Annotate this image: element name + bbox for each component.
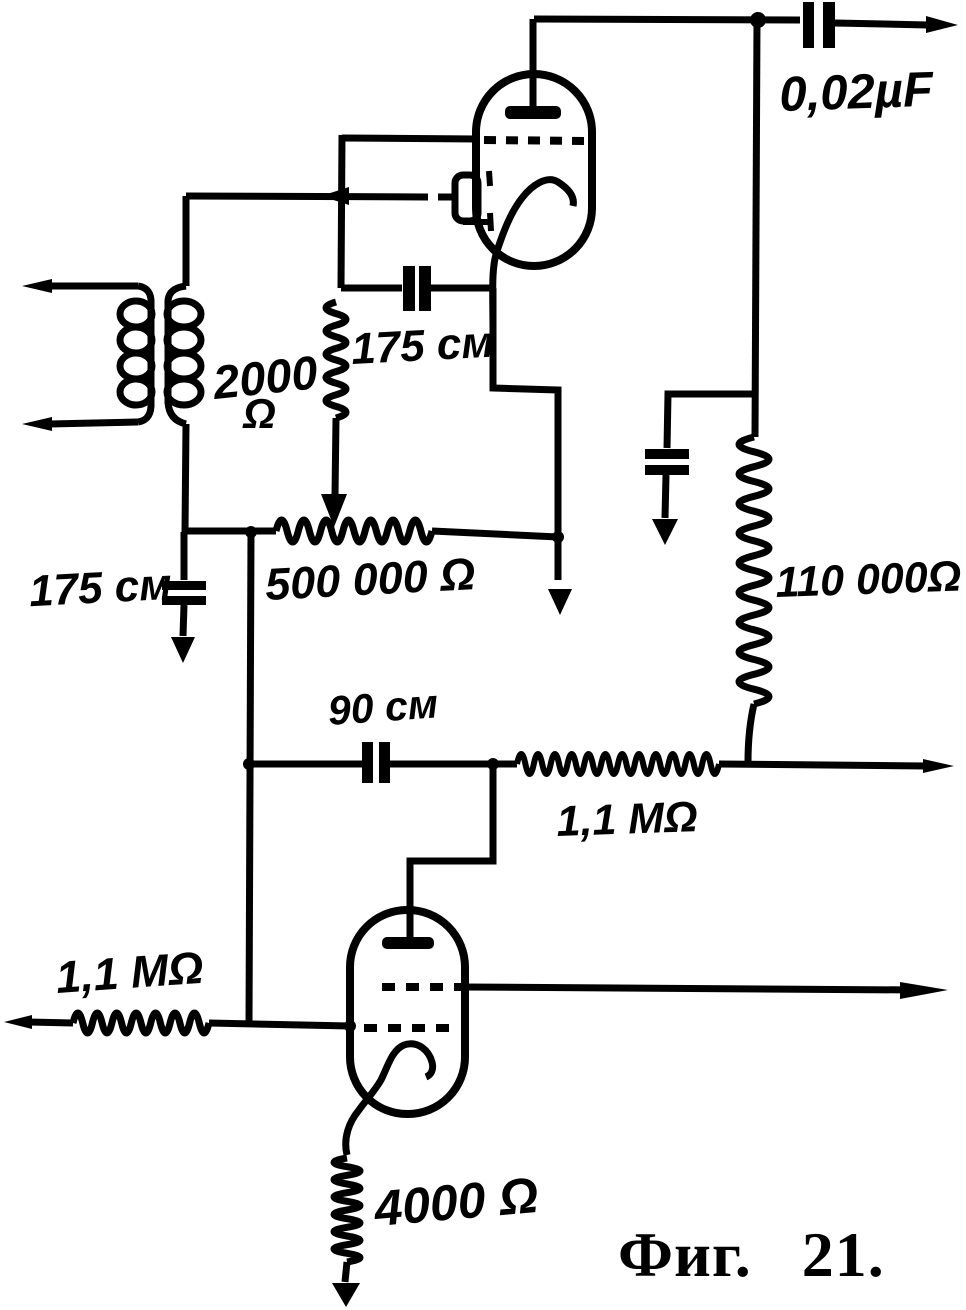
node junction top rail to plate resistor [750,12,766,28]
tube V1 grid dashed line [484,140,589,141]
transformer primary top lead with arrow [22,279,151,304]
resistor 1,1 Mohm coupling zigzag [517,754,719,774]
resistor 1,1 Mohm grid leak zigzag [73,1013,209,1033]
wire 90cm cap to junction [390,761,517,768]
label 2000 ohm [210,345,321,437]
wire branch to plate bypass cap [667,394,756,448]
wire grid line corner down [341,135,342,288]
arrowhead on grid-cap lead [321,187,349,205]
node cathode to potentiometer [552,531,564,543]
wire plate feed tube V1 [530,19,537,110]
svg-text:1,1 МΩ: 1,1 МΩ [556,793,699,846]
potentiometer wiper arrow [321,494,347,527]
tube V2 envelope [350,910,465,1114]
ground arrow below cathode resistor junction [548,589,572,615]
transformer primary winding [120,301,152,405]
tube V1 inner electrode ticks [463,171,491,231]
label 0,02uF [778,63,934,122]
tube V1 envelope [476,74,592,266]
ground arrow below 4000 ohm [332,1283,360,1307]
label 500000 ohm [264,548,477,610]
wire junction to bypass cap 175cm [181,532,188,580]
wire B+ vertical drop to 110k [755,20,757,437]
svg-text:1,1 МΩ: 1,1 МΩ [54,942,205,1003]
tube V2 anode plate bar [382,937,434,949]
label figure caption [618,1219,885,1290]
tube V1 side grid-cap box [455,175,478,221]
transformer secondary winding [167,301,201,405]
resistor 110000 ohm zigzag [739,437,769,762]
wire secondary top to grid-cap lead [168,196,186,304]
capacitor C-out 0,02uF plates [803,2,835,48]
wire coupling down to V2 plate [410,764,493,940]
node potentiometer left to lower bus [245,526,257,538]
wire input arrow bottom left [4,1015,73,1029]
ground arrow below 175cm cap [171,605,195,663]
label 1,1 Mohm grid leak [54,942,205,1003]
svg-text:90 см: 90 см [326,680,439,734]
capacitor 90cm plates [362,742,390,783]
wire V2 output to the right with arrow [464,982,948,999]
svg-text:175 см: 175 см [350,318,495,374]
wire to grid capacitor [341,285,402,292]
wire grid leak to V2 grid [209,1023,350,1026]
capacitor plate bypass plates [645,449,689,475]
tube V2 grid dashed line lower [364,1024,452,1032]
label 110000 ohm [775,553,962,607]
label 175cm top [350,318,495,374]
node bus to 90cm cap [243,758,255,770]
tube V2 grid dashed line upper [382,983,462,991]
potentiometer 500000 ohm zigzag [276,520,558,542]
label 175cm bottom [28,560,173,616]
ground arrow below bypass cap [652,475,678,545]
svg-text:110 000Ω: 110 000Ω [775,553,962,607]
wire secondary bottom down [168,402,186,532]
wire output top right with arrow [835,16,958,33]
tube V1 cathode lead down and over [493,288,558,580]
svg-text:175 см: 175 см [28,560,173,616]
wire B+ top rail [534,19,800,20]
wire grid of V1 to tuned circuit [342,138,478,139]
label 90cm [326,680,439,734]
svg-text:Фиг. 21.: Фиг. 21. [618,1219,885,1290]
wire lower bus vertical [249,532,251,1024]
wire grid capacitor to cathode line [431,285,493,292]
resistor 2000 ohm zigzag [326,302,346,496]
tube V1 cathode filament [493,180,574,332]
svg-text:4000 Ω: 4000 Ω [371,1167,540,1237]
svg-text:500 000 Ω: 500 000 Ω [264,548,477,610]
tube V2 cathode filament [346,1044,433,1155]
wire bus to 90cm cap [249,761,362,768]
capacitor 175cm grid plates [403,266,431,311]
wire grid-cap lead with dash [186,196,455,197]
wire transformer bottom to potentiometer [185,528,276,535]
svg-text:0,02µF: 0,02µF [778,63,934,122]
transformer primary bottom lead with arrow [22,402,151,431]
node grid wire at V2 wall [344,1020,356,1032]
tube V1 anode plate bar [505,106,561,119]
svg-text:Ω: Ω [242,390,276,437]
resistor 4000 ohm zigzag [334,1158,360,1282]
capacitor 175cm bottom plates [162,581,206,605]
wire 1,1M to 110k bottom and output arrow [719,759,954,773]
label 1,1 Mohm coupling [556,793,699,846]
label 4000 ohm [371,1167,540,1237]
node 90cm cap to plate feed of V2 [487,758,499,770]
